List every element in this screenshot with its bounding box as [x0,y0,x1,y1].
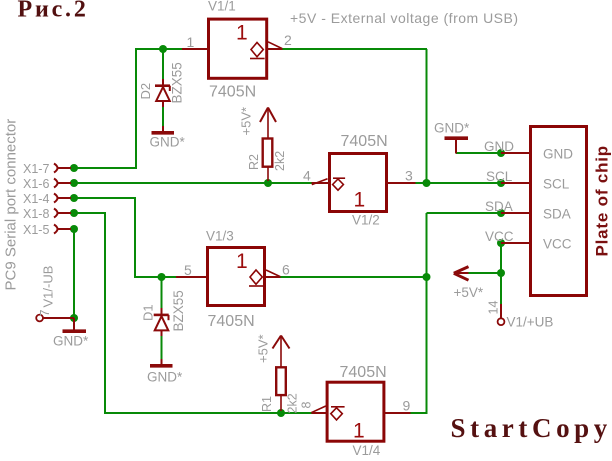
inverter gate V1/2 7405N (mirrored) [312,154,387,212]
wire D2 stub [162,48,164,79]
pin V1/3 input line [176,276,207,278]
svg-text:GND: GND [543,147,573,162]
wire D1 to ground [161,336,163,359]
svg-text:7405N: 7405N [208,313,255,330]
power arrow +5V* near VCC [454,267,484,300]
connector pin X1-8 [54,209,71,218]
svg-text:VCC: VCC [543,237,572,252]
wire X1-8 to V1/4 output [104,412,313,414]
svg-text:D1: D1 [141,304,156,321]
svg-text:PC9 Serial port connector: PC9 Serial port connector [3,119,20,291]
wire to V1/3 input [134,276,176,278]
svg-text:+5V*: +5V* [239,107,254,136]
wire VCC vertical [500,243,502,304]
diode D2 zener BZX55 [155,79,170,107]
svg-text:X1-8: X1-8 [23,207,49,221]
svg-text:14: 14 [487,301,501,315]
resistor R2 [260,108,276,182]
svg-text:2k2: 2k2 [273,151,287,171]
node chip SDA [497,209,505,217]
svg-text:3: 3 [405,168,413,184]
pin V1/2 input line [387,182,416,184]
node V1/-UB junction [70,314,78,322]
node X1-4 [70,194,78,202]
svg-text:+5V - External voltage (from U: +5V - External voltage (from USB) [290,10,519,26]
node V1/1 input junction [159,45,167,53]
svg-text:8: 8 [300,402,314,409]
node chip VCC [497,239,505,247]
chip Plate of chip [531,127,587,296]
svg-text:SDA: SDA [543,207,571,222]
ground GND* top right [434,121,470,154]
pin V1/4 output line [312,412,329,414]
connector pin X1-7 [54,164,71,173]
wire D2 to ground [162,107,164,126]
pin chip SDA [501,212,530,214]
wire V1/1 output to SCL riser [282,48,427,50]
pin V1/+UB supply [498,304,554,330]
svg-text:7405N: 7405N [209,84,256,101]
svg-text:4: 4 [303,168,311,184]
svg-text:GND*: GND* [434,121,470,136]
node SCL junction [423,179,431,187]
svg-text:X1-5: X1-5 [23,223,49,237]
connector pin X1-5 [54,225,71,234]
node X1-5 [70,225,78,233]
pin V1/3 output line [265,276,281,278]
svg-text:7: 7 [38,310,52,317]
inverter gate V1/3 7405N [208,248,281,306]
svg-text:+5V*: +5V* [256,334,271,363]
node chip SCL [497,179,505,187]
svg-text:V1/+UB: V1/+UB [507,315,554,330]
resistor R1 [273,336,290,412]
wire SDA vertical [426,213,428,413]
svg-text:X1-4: X1-4 [23,192,49,206]
svg-text:1: 1 [354,189,366,212]
node R1 junction [277,409,285,417]
inverter gate V1/4 7405N (mirrored) [311,382,384,442]
wire X1-5 vertical drop [73,229,75,319]
wire V1/3 output to SDA [280,276,427,278]
connector pin X1-6 [54,179,71,188]
ground GND* of D2 [150,126,186,150]
node X1-8 [70,209,78,217]
svg-text:V1/-UB: V1/-UB [41,266,56,308]
wire X1-4 horizontal [74,197,136,199]
pin V1/4 input line [384,412,411,414]
ground GND* of D1 [147,359,183,385]
svg-text:GND: GND [484,139,514,154]
wire GND to chip GND pin [456,152,502,154]
svg-text:BZX55: BZX55 [170,62,185,103]
svg-text:7405N: 7405N [341,133,388,150]
svg-text:V1/4: V1/4 [353,443,381,458]
wire X1-6 row [74,182,313,184]
svg-text:GND*: GND* [147,370,183,385]
diode D1 zener BZX55 [154,308,169,336]
svg-text:1: 1 [236,250,248,273]
svg-text:5: 5 [184,262,192,278]
svg-text:GND*: GND* [150,135,186,150]
svg-text:GND*: GND* [53,334,89,349]
svg-text:V1/3: V1/3 [206,229,234,244]
svg-text:1: 1 [236,22,248,45]
node +5V junction [497,269,505,277]
node R2 junction [264,179,272,187]
svg-text:+5V*: +5V* [454,285,484,300]
wire D1 stub [161,277,163,308]
connector pin X1-4 [54,194,71,203]
wire to V1/1 input [135,48,182,50]
wire X1-4 vertical drop [134,197,136,277]
pin V1/1 input line [182,48,208,50]
wire X1-7 vertical riser [135,49,137,169]
wire X1-8 vertical drop [104,212,106,413]
node V1/3 input junction [158,273,166,281]
pin chip VCC [501,242,530,244]
wire V1/4 input [410,412,428,414]
svg-text:V1/1: V1/1 [208,0,236,14]
wire X1-7 horizontal [74,167,135,169]
svg-text:X1-7: X1-7 [23,162,49,176]
svg-text:VCC: VCC [485,229,514,244]
wire +5V arrow shaft [468,272,501,274]
pin chip GND [501,152,530,154]
svg-text:BZX55: BZX55 [171,290,186,331]
svg-text:R1: R1 [260,396,274,412]
svg-text:Рис.2: Рис.2 [18,0,89,23]
wire SCL row [415,182,502,184]
node SDA junction [423,273,431,281]
svg-text:D2: D2 [138,83,153,100]
svg-text:Plate of chip: Plate of chip [593,145,612,256]
pin chip SCL [501,182,530,184]
node X1-6 [70,179,78,187]
svg-text:1: 1 [187,34,195,50]
node X1-7 [70,164,78,172]
ground GND* of V1/-UB [53,318,89,349]
pin V1/1 output line [267,48,283,50]
svg-text:7405N: 7405N [340,364,387,381]
pin V1/-UB supply [36,266,74,322]
wire SCL vertical [426,49,428,183]
wire X1-8 horizontal [74,212,106,214]
svg-text:SCL: SCL [486,169,513,184]
node chip GND [497,149,505,157]
svg-text:V1/2: V1/2 [352,213,380,228]
inverter gate V1/1 7405N [209,19,283,78]
pin V1/2 output line [312,182,331,184]
svg-text:X1-6: X1-6 [23,177,49,191]
svg-text:SDA: SDA [485,199,513,214]
svg-text:R2: R2 [247,154,261,170]
svg-text:6: 6 [282,262,290,278]
svg-text:2: 2 [284,32,292,48]
svg-text:StartCopy: StartCopy [451,413,612,443]
wire SDA row [427,212,503,214]
svg-text:9: 9 [403,398,411,414]
svg-text:1: 1 [353,420,365,443]
svg-text:2k2: 2k2 [286,393,300,413]
svg-text:SCL: SCL [543,177,570,192]
